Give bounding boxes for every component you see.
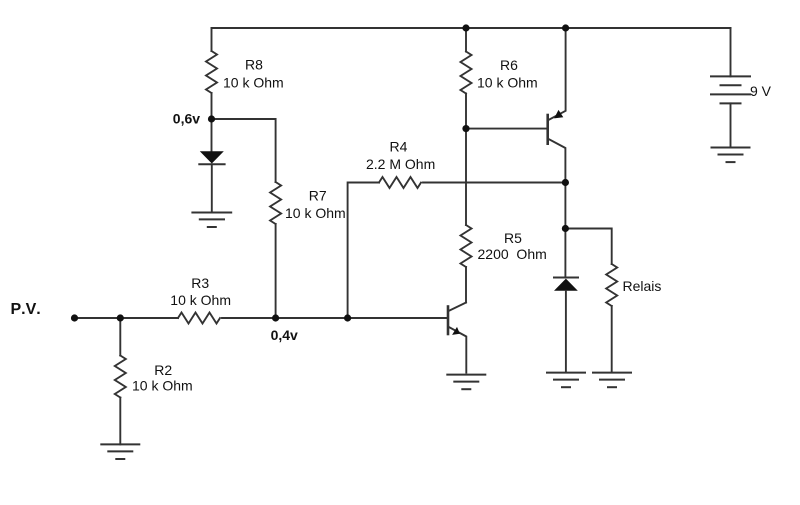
diode D2: [554, 279, 578, 291]
svg-text:2.2 M Ohm: 2.2 M Ohm: [366, 156, 435, 172]
wire: node B to Q2 base: [466, 128, 546, 130]
wire: D2 to ground: [565, 291, 567, 373]
svg-text:10 k Ohm: 10 k Ohm: [132, 378, 193, 394]
resistor R7: [270, 182, 281, 224]
resistor R5: [461, 225, 472, 267]
svg-text:P.V.: P.V.: [11, 301, 41, 318]
resistor R8: [206, 51, 217, 93]
node: relay branch: [562, 225, 569, 232]
transistor Q1 emitter: [449, 327, 467, 373]
transistor Q1 collector: [449, 303, 466, 311]
wire: rail to battery: [730, 28, 732, 76]
wire: top +9V rail: [212, 27, 731, 29]
wire: R7 to node 0,4v: [275, 224, 277, 318]
resistor R6: [461, 52, 472, 94]
svg-text:10 k Ohm: 10 k Ohm: [170, 292, 231, 308]
battery B1 9V: [711, 76, 750, 103]
wire: D1 to ground: [211, 164, 213, 212]
wire: node 0,6v to diode D1: [211, 119, 213, 152]
resistor R2: [115, 356, 126, 398]
resistor R3: [178, 313, 220, 324]
node: rail/R6 junction: [462, 24, 469, 31]
node: rail/Q2 emitter junction: [562, 24, 569, 31]
svg-text:R7: R7: [309, 188, 327, 204]
resistor Relais coil: [606, 264, 617, 306]
ground (below D2): [547, 373, 585, 388]
node: R6/Q2 base: [462, 125, 469, 132]
svg-text:0,6v: 0,6v: [173, 110, 200, 126]
wire: R3 to transistor Q1 base: [222, 317, 447, 319]
transistor Q2 emitter: [549, 28, 566, 120]
transistor Q2 (PNP) base bar: [546, 115, 549, 144]
wire: rail to R6: [465, 28, 467, 52]
wire: node B down to R5: [465, 129, 467, 225]
wire: relay node to relay coil: [565, 229, 611, 265]
svg-text:R8: R8: [245, 57, 263, 73]
svg-text:9 V: 9 V: [750, 83, 772, 99]
wire: node 0,6v to R7 top: [212, 119, 276, 182]
wire: rail to R8: [211, 28, 213, 51]
wire: battery to ground: [730, 103, 732, 147]
wire: R8 to node 0,6v: [211, 93, 213, 119]
node: 0,6v: [208, 115, 215, 122]
svg-text:R4: R4: [390, 139, 408, 155]
transistor Q2 collector: [549, 139, 566, 183]
svg-text:10 k Ohm: 10 k Ohm: [285, 205, 346, 221]
wire: Q2 collector node to relay node: [564, 183, 566, 229]
transistor Q1 (NPN) base bar: [447, 307, 450, 335]
node: R2 junction: [117, 314, 124, 321]
wire: relay coil to ground: [611, 306, 613, 373]
wire: relay node down to diode D2: [564, 229, 566, 278]
svg-text:0,4v: 0,4v: [271, 327, 298, 343]
ground (below Q1): [447, 375, 485, 390]
diode D1: [200, 151, 224, 163]
resistor R4: [379, 177, 421, 188]
svg-text:R6: R6: [500, 57, 518, 73]
ground (below D1): [192, 213, 231, 228]
wire: R2 to ground: [119, 398, 121, 445]
transistor Q2 emitter arrow: [554, 110, 563, 119]
svg-text:10 k Ohm: 10 k Ohm: [477, 75, 538, 91]
wire: node 0,4v up to R4: [348, 183, 379, 319]
diode D1 cathode bar: [199, 163, 224, 165]
node: Q2 collector / R4: [562, 179, 569, 186]
diode D2 cathode bar: [554, 277, 578, 279]
node: R4 branch junction: [344, 314, 351, 321]
svg-text:R3: R3: [191, 275, 209, 291]
svg-text:2200 Ohm: 2200 Ohm: [478, 246, 547, 262]
ground (below relay): [593, 373, 631, 388]
svg-text:Relais: Relais: [623, 278, 662, 294]
wire: R4 to PNP collector node: [423, 182, 565, 184]
ground (below R2): [101, 444, 139, 459]
transistor Q1 emitter arrow: [452, 327, 460, 335]
node: 0,4v: [272, 314, 279, 321]
svg-text:R5: R5: [504, 230, 522, 246]
node: P.V. input terminal: [71, 314, 78, 321]
wire: R6 to node B: [465, 94, 467, 129]
wire: R5 to Q1 collector: [465, 267, 467, 303]
svg-text:R2: R2: [154, 362, 172, 378]
ground (below battery): [712, 148, 750, 163]
wire: R2 branch down: [119, 318, 121, 356]
wire: main input line P.V.: [75, 317, 179, 319]
svg-text:10 k Ohm: 10 k Ohm: [223, 75, 284, 91]
